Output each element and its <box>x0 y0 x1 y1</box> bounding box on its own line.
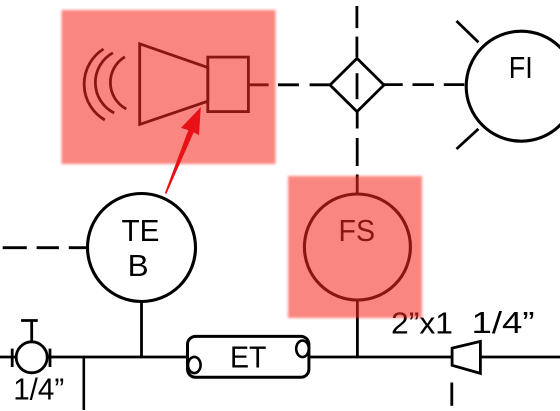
valve circle <box>16 342 47 373</box>
wire: dashed run left edge to TE circle <box>3 246 27 249</box>
ET capsule body <box>188 336 309 377</box>
svg-text:1/4”: 1/4” <box>472 306 535 340</box>
dash below reducer <box>450 383 453 406</box>
horn sound-wave arc inner <box>110 57 126 109</box>
svg-text:TE: TE <box>122 214 160 248</box>
pipe segment ET to reducer <box>309 356 452 359</box>
pipe segment valve to ET capsule <box>47 356 187 359</box>
wire: dashed run diamond down to FS circle <box>356 110 359 129</box>
FS instrument circle <box>304 194 410 300</box>
svg-text:B: B <box>128 249 149 283</box>
red annotation arrow <box>165 107 201 194</box>
drop line below pipe <box>83 357 86 410</box>
reducer trapezoid <box>452 341 480 373</box>
TE stem to pipe <box>140 302 143 358</box>
wire: dashed run diamond to FI circle <box>384 83 403 86</box>
FI instrument circle <box>466 31 560 141</box>
diamond logic symbol <box>330 58 384 111</box>
valve tick right <box>49 349 52 367</box>
FI ray upper-left <box>457 21 479 42</box>
ET capsule end ellipse bottom-left <box>188 357 201 373</box>
svg-text:FI: FI <box>509 51 533 85</box>
FI ray lower-left <box>457 129 479 149</box>
valve tick left <box>11 349 14 367</box>
diamond inner tick <box>356 73 359 99</box>
wire: dashed run above diamond <box>355 6 358 28</box>
horn alarm symbol: bell trapezoid <box>140 44 208 125</box>
highlight overlay rect on FS <box>288 176 422 318</box>
TE instrument circle <box>88 194 196 302</box>
ET capsule end ellipse top-right <box>296 341 309 358</box>
horn sound-wave arc middle <box>95 53 114 113</box>
highlight overlay rect on horn <box>62 10 276 164</box>
horn alarm symbol: driver square <box>208 57 249 112</box>
svg-text:1/4”: 1/4” <box>13 372 64 406</box>
valve T-bar <box>21 319 38 322</box>
pipe segment far left to valve <box>0 356 16 359</box>
svg-text:ET: ET <box>230 341 267 375</box>
wire: dashed run horn square to diamond <box>248 83 268 86</box>
valve stem <box>30 321 33 342</box>
pipe segment reducer to right edge <box>480 356 560 359</box>
horn sound-wave arc outer <box>84 49 105 120</box>
FS stem to pipe <box>356 300 359 357</box>
